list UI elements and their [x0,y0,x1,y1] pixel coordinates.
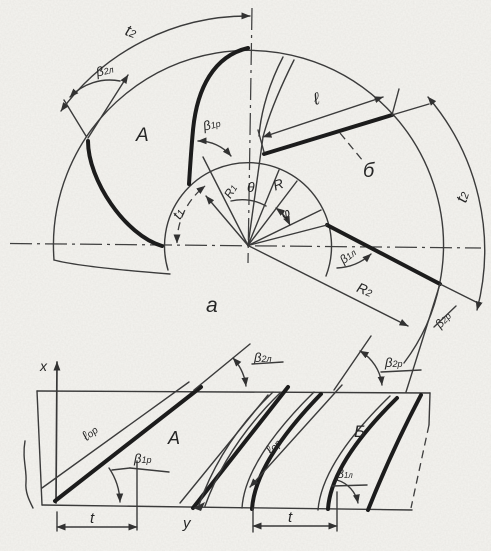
left t tick [56,512,58,531]
radial line at 22deg [248,170,279,246]
outer impeller circle R2 [53,50,443,363]
x axis [56,362,57,503]
blade B1 lower thin [242,392,314,508]
tick at x137 [136,461,138,530]
beta1r angle arc at blade A2 inner end [198,141,231,156]
beta1r angle arc lower left [109,468,120,502]
blade A1 lower: thin side [42,382,189,488]
band bottom edge [42,505,412,510]
thin blade-B outline sliver top center [259,57,283,136]
t2 dimension arc right [428,97,485,310]
beta1l angle arc lower [337,480,358,503]
blade B1 (straight, thick, upper right) [264,115,392,154]
svg-text:х: х [39,358,48,374]
radial line at 64deg [248,210,321,246]
radial line to blade B2 inner end [248,225,327,246]
band right edge torn dashes [411,425,429,508]
blade B1 extension line [392,104,429,115]
line from blade B2 end to lower cascade [406,284,440,392]
beta2l angle construction mid: line [194,344,250,390]
radial line to l arrow end [248,137,263,246]
lor dimension line right [250,385,342,487]
blade A2 bottom arrowhead [193,502,205,511]
phi arc [276,208,290,225]
blade A1 lower: thick side [55,387,201,501]
thin curved blade outline pair mid [199,392,273,505]
svg-text:б: б [363,160,375,182]
left t dimension [57,526,137,528]
blade A2 lower: thick side [193,387,288,508]
blade B1 outer tick [392,89,399,115]
blade A2 (curved, thick, top center) [189,48,248,184]
beta2l underline mid [252,362,283,364]
beta1l underline lower [332,485,367,486]
radial line to blade A2 inner end [203,157,248,246]
beta1r underline lower [130,468,169,472]
band left edge [37,391,42,505]
theta arc [231,200,266,206]
beta2r angle construction mid: line [334,336,371,390]
blade A2 lower: thin side [180,395,268,503]
radial line at 37deg [248,181,297,246]
blade B1 lower thick [252,394,321,509]
t1 dimension arc [177,186,205,243]
beta2l angle at blade A1 outer end: tangent line [88,75,128,138]
beta2r underline mid [381,370,421,372]
t2 dimension arc top-left [61,16,250,111]
svg-text:А: А [135,125,149,146]
vertical centerline [248,8,252,263]
beta2r arc mid [360,351,382,385]
svg-text:а: а [206,294,218,317]
beta2r rotated underline [434,306,456,327]
inner impeller circle R1 [165,163,332,276]
beta2l arc mid [233,358,246,386]
R1 arrow [206,196,248,246]
blade B1 inner tick [258,130,264,152]
right t dimension [253,525,337,527]
right t ticks [252,508,254,532]
blade B2 extension to t2 arc [440,284,476,302]
horizontal centerline [10,244,481,249]
blade A1 (curved, thick) [88,141,162,246]
leader dashes from blade B1 toward label [340,133,363,161]
torn wave left [24,441,33,508]
l dimension line [263,97,383,137]
svg-text:Б: Б [354,422,365,441]
svg-text:θ: θ [247,179,255,195]
sector cut boundary left [54,260,170,274]
blade B2 (straight, thick, lower right) [327,225,440,284]
blade B3 lower thick [368,395,421,510]
beta2l angle arc [70,80,120,97]
blade B2 lower thin [318,396,390,510]
beta1l angle arc at blade B2 inner end [337,254,371,268]
R2 radius line with arrow [248,246,408,327]
band right edge [429,393,430,425]
band top edge [37,391,430,393]
beta1r leader [112,468,130,470]
blade B2 lower thick [328,398,397,509]
extension tick blade A1 outer [64,100,86,136]
svg-text:А: А [167,428,180,448]
